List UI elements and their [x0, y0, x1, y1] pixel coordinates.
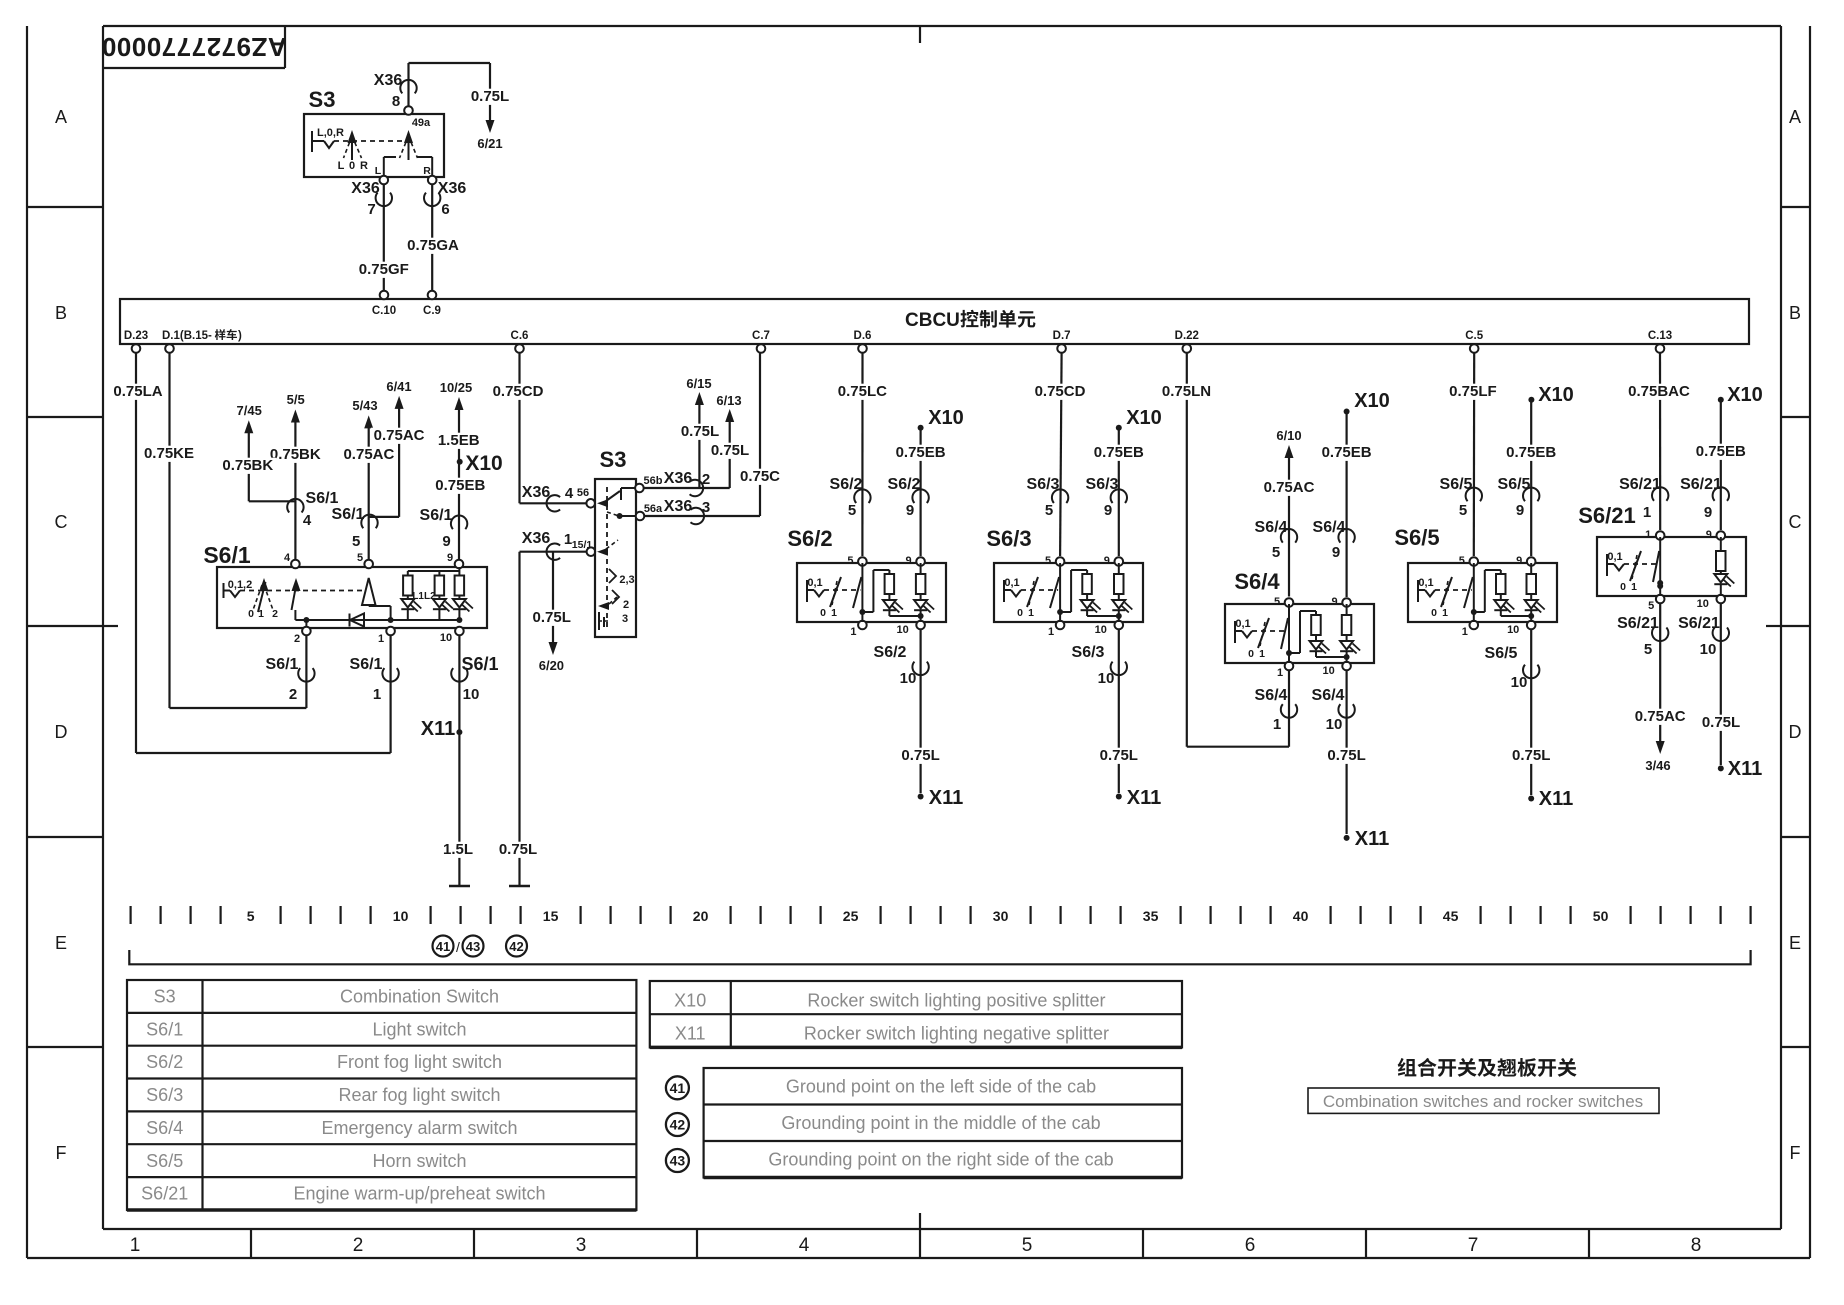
switch S6/4 box	[1225, 604, 1374, 663]
svg-text:Rocker switch lighting negativ: Rocker switch lighting negative splitter	[804, 1024, 1109, 1044]
svg-text:S6/5: S6/5	[1440, 476, 1473, 493]
svg-text:S6/2: S6/2	[888, 476, 921, 493]
connector X36 pin 4	[547, 495, 561, 511]
svg-text:X11: X11	[1539, 788, 1573, 810]
combination switch S3 box	[304, 114, 444, 177]
S6/2 internal LED 1	[888, 594, 890, 600]
svg-text:1: 1	[378, 633, 384, 645]
svg-text:0.75AC: 0.75AC	[1264, 479, 1315, 496]
S6/4 internal bottom link	[1316, 656, 1347, 658]
svg-text:10: 10	[1326, 716, 1343, 733]
svg-text:S6/5: S6/5	[1485, 645, 1518, 662]
svg-text:D.22: D.22	[1175, 330, 1199, 342]
svg-text:43: 43	[670, 1153, 686, 1169]
S6/5 internal dashed line	[1435, 589, 1472, 591]
S6/5 internal zigzag	[1425, 590, 1435, 597]
svg-text:9: 9	[1516, 555, 1522, 567]
svg-text:0.75EB: 0.75EB	[1094, 444, 1144, 461]
arrow to 6/15	[695, 392, 704, 405]
S6/1 internal contact bar	[223, 583, 225, 598]
svg-text:5: 5	[1022, 1235, 1033, 1256]
S6/2 internal riser pinA	[861, 563, 863, 612]
svg-text:S6/21: S6/21	[1680, 476, 1722, 493]
wire S6/3 pin10 down	[1118, 630, 1120, 794]
svg-text:S3: S3	[600, 447, 627, 472]
S6/21 top pin 9	[1717, 531, 1726, 540]
svg-text:S6/1: S6/1	[266, 656, 299, 673]
svg-text:0.75L: 0.75L	[1100, 747, 1138, 764]
S3 internal dashed line	[334, 140, 403, 142]
S3 middle internal chevron 2,3	[609, 569, 616, 583]
svg-text:1.5L: 1.5L	[443, 841, 473, 858]
svg-text:X36: X36	[438, 180, 467, 197]
svg-text:10: 10	[1098, 670, 1115, 687]
ground point 42 marker	[506, 936, 527, 957]
svg-text:5: 5	[848, 502, 856, 519]
connector S6/3 pin 10 lower	[1111, 662, 1127, 676]
svg-text:0.75LA: 0.75LA	[113, 383, 162, 400]
svg-text:S6/2: S6/2	[874, 644, 907, 661]
svg-text:5: 5	[357, 552, 363, 564]
svg-text:S6/1: S6/1	[461, 654, 498, 674]
S3 pin 56	[586, 499, 595, 508]
svg-text:9: 9	[1704, 504, 1712, 521]
svg-text:43: 43	[466, 939, 480, 954]
svg-text:1.5EB: 1.5EB	[438, 432, 480, 449]
wire 0.75EB to S6/3 pin 9	[1118, 430, 1120, 556]
legend table splitters	[650, 981, 1182, 1047]
svg-text:D: D	[1789, 722, 1802, 742]
wire 0.75EB to S6/5 pin 9	[1530, 402, 1532, 556]
svg-text:0.75BAC: 0.75BAC	[1628, 383, 1690, 400]
svg-text:41: 41	[436, 939, 450, 954]
S6/21 internal resistor	[1720, 537, 1722, 551]
connector S6/2 pin 5 upper	[854, 489, 870, 503]
svg-text:0.75KE: 0.75KE	[144, 445, 194, 462]
frame column dividers bottom	[250, 1229, 252, 1258]
S6/21 top pin 1	[1656, 531, 1665, 540]
arrow to 5/43	[364, 415, 373, 428]
svg-text:0.75L: 0.75L	[1702, 714, 1740, 731]
wire 0.75LN from D.22	[1186, 353, 1188, 747]
svg-text:S6/4: S6/4	[1255, 687, 1288, 704]
svg-text:45: 45	[1443, 908, 1459, 924]
svg-text:49a: 49a	[412, 117, 431, 129]
svg-text:25: 25	[843, 908, 859, 924]
S6/5 bottom pin 10	[1527, 621, 1536, 630]
svg-text:X11: X11	[929, 787, 963, 809]
S6/21 internal zigzag	[1614, 564, 1624, 571]
svg-text:D.23: D.23	[124, 330, 148, 342]
svg-text:0.75LC: 0.75LC	[838, 383, 887, 400]
svg-text:56: 56	[577, 487, 589, 499]
svg-text:0.75L: 0.75L	[499, 841, 537, 858]
title block AZ9727770000	[103, 67, 285, 69]
svg-text:C.10: C.10	[372, 305, 396, 317]
svg-text:1: 1	[1028, 607, 1034, 619]
svg-text:X36: X36	[374, 72, 403, 89]
svg-text:0.75CD: 0.75CD	[493, 383, 544, 400]
svg-text:7: 7	[1468, 1235, 1479, 1256]
svg-text:0.75AC: 0.75AC	[343, 446, 394, 463]
connector S6/1 pin 4	[287, 499, 303, 513]
S6/4 internal resistor 1	[1315, 611, 1317, 615]
svg-text:8: 8	[1691, 1235, 1702, 1256]
arrow to 7/45	[244, 420, 253, 433]
svg-text:C.9: C.9	[423, 305, 441, 317]
connector S6/21 pin 10 lower	[1713, 628, 1729, 642]
svg-text:C.7: C.7	[752, 330, 770, 342]
connector S6/2 pin 9 upper	[912, 489, 928, 503]
light switch S6/1 box	[217, 567, 487, 628]
wire label 0.75GA	[405, 238, 461, 254]
svg-text:10: 10	[393, 908, 409, 924]
connector X36 pin 3	[691, 508, 705, 524]
S6/2 top pin 5	[858, 557, 867, 566]
svg-text:8: 8	[392, 93, 400, 110]
S6/4 internal zigzag	[1242, 631, 1252, 638]
svg-text:F: F	[56, 1143, 67, 1163]
svg-text:X10: X10	[1538, 384, 1574, 406]
svg-text:1: 1	[1631, 581, 1637, 593]
S6/2 internal dashed line	[824, 589, 860, 591]
arrow to 6/41	[395, 396, 404, 409]
S6/3 internal zigzag	[1011, 590, 1021, 597]
switch S6/2 box	[797, 563, 946, 622]
svg-text:L,0,R: L,0,R	[317, 127, 344, 139]
svg-text:30: 30	[993, 908, 1009, 924]
S6/2 internal resistor 1	[888, 570, 890, 574]
S6/5 internal resistor 1	[1500, 570, 1502, 574]
svg-text:S6/1: S6/1	[332, 506, 365, 523]
svg-text:S6/2: S6/2	[830, 476, 863, 493]
splitter X11 junction S6/5	[1528, 796, 1534, 802]
svg-text:0: 0	[1248, 648, 1254, 660]
connector S6/1 pin 5	[361, 515, 377, 529]
S6/5 internal link wire	[1474, 611, 1485, 613]
svg-text:5: 5	[847, 555, 853, 567]
svg-text:B: B	[1789, 303, 1801, 323]
svg-text:D.1(B.15-: D.1(B.15-	[162, 330, 212, 342]
wire S6/1 pin10 down to terminal	[458, 635, 460, 886]
svg-text:9: 9	[442, 533, 450, 550]
switch S6/3 box	[994, 563, 1143, 622]
svg-text:5: 5	[1045, 502, 1053, 519]
svg-text:10/25: 10/25	[440, 380, 473, 395]
svg-text:1: 1	[373, 686, 381, 703]
svg-text:0.75L: 0.75L	[533, 609, 571, 626]
wire 6/13 branch	[729, 421, 731, 488]
svg-text:X10: X10	[465, 452, 502, 475]
svg-text:L: L	[338, 160, 345, 172]
svg-text:S6/4: S6/4	[146, 1118, 183, 1138]
S6/5 internal resistor 2	[1530, 563, 1532, 574]
S6/21 bottom pin 5	[1656, 595, 1665, 604]
svg-text:50: 50	[1593, 908, 1609, 924]
splitter X10 junction S6/3	[1116, 425, 1122, 431]
frame outer border	[26, 26, 28, 1258]
svg-text:5: 5	[352, 533, 360, 550]
svg-text:2: 2	[272, 608, 278, 620]
svg-text:41: 41	[670, 1080, 686, 1096]
svg-text:0.75LF: 0.75LF	[1449, 383, 1497, 400]
svg-text:X11: X11	[675, 1024, 706, 1044]
CBCU bottom pin D.6	[858, 344, 867, 353]
connector S6/5 pin 9 upper	[1523, 488, 1539, 502]
svg-text:C.13: C.13	[1648, 330, 1672, 342]
S6/5 internal arm 2	[1464, 577, 1473, 608]
S6/1 top pin 4	[291, 560, 300, 569]
S3 internal bracket L	[383, 157, 385, 177]
svg-text:1: 1	[1645, 529, 1651, 541]
wire S3 L pin to C.10 (0.75GF)	[380, 176, 389, 185]
svg-text:0,1: 0,1	[1418, 577, 1433, 589]
svg-text:S6/21: S6/21	[1617, 615, 1659, 632]
S6/5 internal arm 1	[1441, 577, 1452, 607]
svg-text:1: 1	[1442, 607, 1448, 619]
wire S6/1 pin5 up	[368, 427, 370, 560]
S3 middle internal dashed selector	[606, 487, 608, 628]
svg-text:2,3: 2,3	[619, 574, 634, 586]
S6/1 top pin 5	[364, 560, 373, 569]
connector S6/1 pin 2	[298, 668, 314, 682]
svg-text:Ground point on the left side: Ground point on the left side of the cab	[786, 1077, 1096, 1097]
svg-text:0.75EB: 0.75EB	[1696, 443, 1746, 460]
S3 internal arrow main 49a	[408, 139, 410, 160]
ground point 42 legend marker	[666, 1113, 689, 1136]
svg-text:10: 10	[1697, 598, 1709, 610]
connector S6/3 pin 5 upper	[1052, 489, 1068, 503]
S6/5 top pin 5	[1470, 557, 1479, 566]
S6/4 top pin 9	[1342, 598, 1351, 607]
svg-text:15: 15	[543, 908, 559, 924]
svg-text:S6/1: S6/1	[350, 656, 383, 673]
S6/1 internal arm 0-1-2	[258, 582, 266, 612]
S3 middle internal arrow bottom	[598, 602, 609, 610]
svg-text:Combination switches and rocke: Combination switches and rocker switches	[1323, 1092, 1643, 1111]
svg-text:0,1,2: 0,1,2	[228, 579, 252, 591]
svg-text:7: 7	[367, 201, 375, 218]
svg-text:5: 5	[1274, 596, 1280, 608]
combination switch S3 middle box	[595, 479, 636, 637]
S6/1 internal arm pin5 triangle	[362, 578, 376, 605]
svg-text:0.75L: 0.75L	[711, 442, 749, 459]
svg-text:0.75AC: 0.75AC	[374, 427, 425, 444]
svg-text:0: 0	[820, 607, 826, 619]
svg-text:E: E	[1789, 933, 1801, 953]
svg-text:2: 2	[623, 599, 629, 611]
S6/21 bottom pin 10	[1717, 595, 1726, 604]
wire 0.75EB to S6/2 pin 9	[919, 430, 921, 556]
svg-text:Grounding point on the right s: Grounding point on the right side of the…	[768, 1150, 1113, 1170]
svg-text:0.75L: 0.75L	[681, 423, 719, 440]
svg-text:S6/5: S6/5	[1498, 476, 1531, 493]
wire S6/5 pin10 down	[1530, 630, 1532, 796]
splitter X10 junction S6/2	[918, 425, 924, 431]
svg-text:X11: X11	[421, 718, 455, 740]
wire S6/4 pin1 down leg	[1288, 671, 1290, 747]
wire 0.75LF from C.5 to S6/5 pin 5	[1473, 353, 1476, 557]
svg-text:9: 9	[1332, 596, 1338, 608]
wire 0.75EB to S6/4 pin 9	[1345, 414, 1347, 597]
svg-text:S6/2: S6/2	[146, 1052, 183, 1072]
svg-text:0.75CD: 0.75CD	[1035, 383, 1086, 400]
wire 0.75BK left branch	[248, 432, 250, 501]
frame row dividers right	[1781, 206, 1810, 208]
svg-text:3: 3	[702, 499, 710, 516]
wire 0.75EB to S6/21 pin 9	[1720, 402, 1722, 530]
S3 middle pin 56a	[636, 512, 645, 521]
svg-text:X36: X36	[664, 470, 693, 487]
S3 middle internal stub 56b	[621, 487, 635, 489]
svg-text:20: 20	[693, 908, 709, 924]
S6/3 internal arm 1	[1027, 577, 1038, 607]
splitter X11 junction S6/2	[918, 794, 924, 800]
svg-text:S6/21: S6/21	[1619, 476, 1661, 493]
S6/3 top pin 9	[1115, 557, 1124, 566]
svg-text:1: 1	[1273, 716, 1281, 733]
S6/3 bottom pin 10	[1115, 621, 1124, 630]
svg-text:15/1: 15/1	[572, 539, 593, 551]
svg-text:S6/3: S6/3	[1072, 644, 1105, 661]
S6/4 internal arm 2	[1281, 618, 1288, 649]
wire label 0.75L	[466, 89, 514, 105]
wire S6/4 pin10 down	[1345, 671, 1347, 835]
svg-text:2: 2	[289, 686, 297, 703]
svg-text:S6/3: S6/3	[1086, 476, 1119, 493]
S6/3 internal contact bar	[1003, 580, 1005, 602]
svg-text:L: L	[375, 165, 382, 177]
svg-text:S6/5: S6/5	[146, 1151, 183, 1171]
connector S6/1 pin 10	[451, 668, 467, 682]
wire label 0.75GF	[356, 262, 412, 278]
S6/4 internal contact bar	[1234, 621, 1236, 643]
switch S6/21 box	[1597, 537, 1746, 596]
svg-text:S6/3: S6/3	[1027, 476, 1060, 493]
svg-text:6/41: 6/41	[386, 379, 411, 394]
svg-text:X10: X10	[1126, 407, 1162, 429]
connector S6/2 pin 10 lower	[912, 662, 928, 676]
S6/3 internal dashed line	[1021, 589, 1058, 591]
splitter X10 junction S6/21	[1718, 397, 1724, 403]
S6/21 internal LED	[1720, 571, 1722, 574]
connector S6/4 pin 10 lower	[1338, 704, 1354, 718]
S6/2 internal arm 1	[830, 577, 841, 607]
connector X36 pin 1	[547, 544, 561, 560]
S6/1 internal dashed line	[240, 590, 362, 592]
svg-text:0.75L: 0.75L	[1327, 747, 1365, 764]
S3 middle internal chevron 2	[612, 590, 619, 604]
wire 0.75BAC from C.13 to S6/21 pin 1	[1659, 353, 1661, 531]
svg-text:X10: X10	[928, 407, 964, 429]
connector X36 pin 2	[690, 480, 704, 496]
wire X36:2 row from 56b	[644, 487, 730, 489]
svg-text:0,1: 0,1	[1607, 551, 1622, 563]
svg-text:S6/5: S6/5	[1394, 525, 1439, 550]
S6/4 internal LED 2	[1346, 635, 1348, 641]
S6/2 internal bottom link	[889, 615, 920, 617]
svg-text:10: 10	[900, 670, 917, 687]
diagram title Chinese	[1398, 1058, 1417, 1077]
svg-text:0.75EB: 0.75EB	[896, 444, 946, 461]
connector S6/1 pin 1	[382, 668, 398, 682]
svg-text:9: 9	[447, 552, 453, 564]
connector S6/5 pin 5 upper	[1466, 488, 1482, 502]
svg-text:Combination Switch: Combination Switch	[340, 987, 499, 1007]
S6/1 internal arm pin4	[292, 583, 297, 610]
S6/1 internal bottom bus	[306, 619, 459, 621]
svg-text:0.75EB: 0.75EB	[1506, 444, 1556, 461]
CBCU bottom pin D.22	[1183, 344, 1192, 353]
wire top route to 0.75L arrow	[409, 62, 491, 64]
svg-text:S3: S3	[154, 987, 176, 1007]
svg-text:10: 10	[1511, 674, 1528, 691]
ground terminal bar 1.5L	[449, 885, 470, 888]
svg-text:S6/1: S6/1	[146, 1019, 183, 1039]
svg-text:S6/1: S6/1	[420, 507, 453, 524]
svg-text:2: 2	[353, 1235, 364, 1256]
svg-text:1: 1	[1259, 648, 1265, 660]
S6/5 internal LED 1	[1500, 594, 1502, 600]
wire label 0.75AC left	[341, 447, 397, 463]
S6/4 top pin 5	[1285, 598, 1294, 607]
svg-text:S6/1: S6/1	[203, 542, 251, 568]
connector S6/5 pin 10 lower	[1523, 665, 1539, 679]
S6/2 bottom pin 1	[858, 621, 867, 630]
connector S6/4 pin 5 upper	[1281, 529, 1297, 543]
arrow to 6/20	[549, 642, 558, 655]
svg-text:AZ9727770000: AZ9727770000	[101, 32, 286, 62]
CBCU bottom pin C.6	[515, 344, 524, 353]
svg-text:0: 0	[1017, 607, 1023, 619]
wire 0.75L branch to 6/20	[552, 552, 554, 642]
S6/2 top pin 9	[916, 557, 925, 566]
S3 middle internal park contact	[598, 612, 600, 630]
splitter X11 junction S6/4	[1344, 835, 1350, 841]
wire S6/1 pin1 down	[390, 635, 392, 753]
svg-text:5: 5	[1644, 641, 1652, 658]
S6/1 bottom pin 10	[455, 627, 464, 636]
S6/2 internal zigzag	[814, 590, 824, 597]
svg-text:X36: X36	[351, 180, 380, 197]
svg-text:A: A	[1789, 107, 1801, 127]
CBCU bottom pin D.1	[165, 344, 174, 353]
S3 middle internal dashed leg	[607, 512, 619, 516]
wire S3 R pin to C.9 (0.75GA)	[428, 176, 437, 185]
S6/21 internal dashed line	[1624, 563, 1658, 565]
svg-text:B: B	[55, 303, 67, 323]
svg-text:9: 9	[1104, 502, 1112, 519]
splitter X11 junction S6/21	[1718, 765, 1724, 771]
svg-text:0: 0	[248, 608, 254, 620]
S6/5 top pin 9	[1527, 557, 1536, 566]
svg-text:1: 1	[831, 607, 837, 619]
S6/4 internal link wire	[1289, 652, 1300, 654]
S6/1 internal LED 1	[407, 596, 409, 600]
svg-text:C.6: C.6	[511, 330, 529, 342]
S3 middle internal arrow 15/1	[597, 548, 608, 556]
svg-text:D: D	[55, 722, 68, 742]
svg-text:0: 0	[349, 160, 355, 172]
svg-text:3: 3	[576, 1235, 587, 1256]
svg-text:0.75AC: 0.75AC	[1635, 708, 1686, 725]
svg-text:1: 1	[130, 1235, 141, 1256]
svg-text:5: 5	[1459, 555, 1465, 567]
svg-text:4: 4	[303, 512, 312, 529]
connector S6/1 pin 9	[451, 516, 467, 530]
svg-text:6/15: 6/15	[686, 376, 711, 391]
S6/3 internal arm 2	[1050, 577, 1059, 608]
